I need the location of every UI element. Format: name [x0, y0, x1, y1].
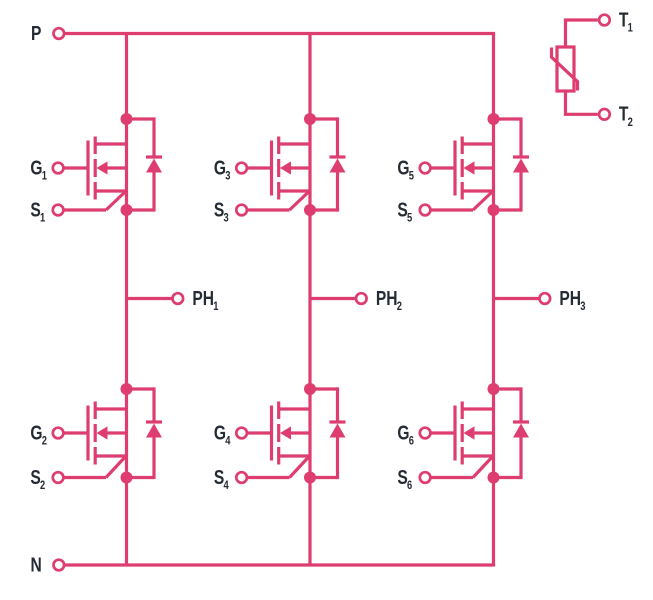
MOSFET Q4 body arrow	[280, 426, 310, 439]
MOSFET Q3 drain lead	[279, 142, 310, 145]
MOSFET Q3 source lead	[279, 189, 310, 192]
MOSFET Q1 source lead	[95, 189, 126, 192]
svg-text:S6: S6	[397, 466, 412, 492]
MOSFET Q5 source diagonal	[473, 191, 493, 210]
junction drain node Q3	[304, 113, 316, 125]
svg-text:PH3: PH3	[559, 287, 585, 313]
MOSFET Q5 source lead	[462, 189, 493, 192]
wire source S5	[430, 208, 473, 211]
MOSFET Q3 channel segments	[277, 137, 280, 200]
wire PH2 stub	[310, 297, 356, 300]
junction drain node Q4	[304, 383, 316, 395]
MOSFET Q1 channel segments	[94, 137, 97, 200]
junction drain node Q5	[488, 113, 500, 125]
terminal T2	[599, 109, 610, 120]
junction drain node Q1	[121, 113, 133, 125]
MOSFET Q6 source diagonal	[473, 456, 493, 478]
MOSFET Q2 channel segments	[94, 402, 97, 465]
wire diode D6 anode to source	[494, 438, 522, 480]
wire diode D3 anode to source	[310, 173, 338, 212]
wire diode D5 anode to source	[494, 173, 522, 212]
MOSFET Q2 source diagonal	[106, 456, 126, 478]
MOSFET Q5 channel segments	[461, 137, 464, 200]
MOSFET Q2 gate plate	[86, 406, 89, 461]
terminal G6	[420, 428, 431, 439]
wire gate G1	[63, 166, 88, 169]
terminal G5	[420, 163, 431, 174]
MOSFET Q1 gate plate	[86, 141, 89, 196]
MOSFET Q1 body arrow	[97, 161, 127, 174]
terminal N	[54, 560, 65, 571]
wire diode D1 anode to source	[127, 173, 155, 212]
svg-text:G5: G5	[397, 156, 414, 182]
terminal PH1	[173, 293, 184, 304]
terminal G4	[236, 428, 247, 439]
wire phase leg 3 (vertical)	[492, 34, 495, 566]
junction source node Q2	[121, 472, 133, 484]
wire source S3	[247, 208, 290, 211]
svg-text:S5: S5	[397, 198, 412, 224]
junction source node Q5	[488, 204, 500, 216]
MOSFET Q3 body arrow	[280, 161, 310, 174]
wire gate G5	[430, 166, 455, 169]
wire drain to diode D4 cathode	[310, 387, 338, 420]
terminal S5	[420, 205, 431, 216]
MOSFET Q5 drain lead	[462, 142, 493, 145]
wire source S4	[247, 476, 290, 479]
MOSFET Q6 channel segments	[461, 402, 464, 465]
terminal P	[54, 28, 65, 39]
MOSFET Q4 drain lead	[279, 407, 310, 410]
svg-text:S4: S4	[214, 466, 229, 492]
MOSFET Q3 gate plate	[270, 141, 273, 196]
MOSFET Q6 source lead	[462, 454, 493, 457]
terminal S2	[53, 472, 64, 483]
svg-text:N: N	[31, 553, 42, 575]
wire source S6	[430, 476, 473, 479]
wire gate G2	[63, 431, 88, 434]
wire gate G4	[247, 431, 272, 434]
svg-text:S3: S3	[214, 198, 229, 224]
wire source S2	[63, 476, 106, 479]
terminal G1	[53, 163, 64, 174]
MOSFET Q4 source diagonal	[290, 456, 310, 478]
MOSFET Q2 source lead	[95, 454, 126, 457]
thermistor RT1 strike line	[552, 48, 578, 91]
MOSFET Q6 gate plate	[453, 406, 456, 461]
body diode D6	[513, 422, 529, 438]
wire diode D4 anode to source	[310, 438, 338, 480]
MOSFET Q6 drain lead	[462, 407, 493, 410]
MOSFET Q2 drain lead	[95, 407, 126, 410]
svg-text:G1: G1	[30, 156, 47, 182]
wire drain to diode D1 cathode	[127, 117, 155, 155]
terminal G3	[236, 163, 247, 174]
terminal T1	[599, 15, 610, 26]
body diode D3	[330, 157, 346, 173]
body diode D2	[146, 422, 162, 438]
wire gate G6	[430, 431, 455, 434]
MOSFET Q4 source lead	[279, 454, 310, 457]
wire PH3 stub	[494, 297, 540, 300]
wire PH1 stub	[127, 297, 173, 300]
junction source node Q4	[304, 472, 316, 484]
thermistor RT1 body	[557, 47, 574, 91]
junction source node Q6	[488, 472, 500, 484]
svg-text:T2: T2	[619, 103, 633, 129]
terminal PH3	[540, 293, 551, 304]
body diode D1	[146, 157, 162, 173]
svg-text:PH2: PH2	[376, 287, 402, 313]
MOSFET Q1 source diagonal	[106, 191, 126, 210]
svg-text:PH1: PH1	[192, 287, 218, 313]
svg-text:S1: S1	[30, 198, 45, 224]
terminal S3	[236, 205, 247, 216]
wire source S1	[63, 208, 106, 211]
wire drain to diode D3 cathode	[310, 117, 338, 155]
wire gate G3	[247, 166, 272, 169]
MOSFET Q4 channel segments	[277, 402, 280, 465]
body diode D5	[513, 157, 529, 173]
wire drain to diode D6 cathode	[494, 387, 522, 420]
junction drain node Q6	[488, 383, 500, 395]
svg-text:S2: S2	[30, 466, 45, 492]
body diode D4	[330, 422, 346, 438]
MOSFET Q6 body arrow	[464, 426, 494, 439]
svg-text:G6: G6	[397, 421, 414, 447]
wire N rail	[64, 563, 495, 566]
MOSFET Q1 drain lead	[95, 142, 126, 145]
terminal G2	[53, 428, 64, 439]
wire P rail	[64, 32, 495, 35]
MOSFET Q4 gate plate	[270, 406, 273, 461]
wire T2 lead	[564, 91, 598, 114]
wire diode D2 anode to source	[127, 438, 155, 480]
svg-text:G2: G2	[30, 421, 47, 447]
svg-text:T1: T1	[619, 8, 633, 34]
MOSFET Q5 body arrow	[464, 161, 494, 174]
junction source node Q3	[304, 204, 316, 216]
MOSFET Q5 gate plate	[453, 141, 456, 196]
wire phase leg 2 (vertical)	[308, 34, 311, 566]
terminal S4	[236, 472, 247, 483]
terminal S1	[53, 205, 64, 216]
svg-text:G4: G4	[214, 421, 231, 447]
junction drain node Q2	[121, 383, 133, 395]
terminal S6	[420, 472, 431, 483]
terminal PH2	[356, 293, 367, 304]
wire phase leg 1 (vertical)	[125, 34, 128, 566]
wire T1 lead	[564, 20, 598, 47]
svg-text:G3: G3	[214, 156, 231, 182]
wire drain to diode D2 cathode	[127, 387, 155, 420]
svg-text:P: P	[31, 22, 41, 44]
MOSFET Q3 source diagonal	[290, 191, 310, 210]
junction source node Q1	[121, 204, 133, 216]
wire drain to diode D5 cathode	[494, 117, 522, 155]
MOSFET Q2 body arrow	[97, 426, 127, 439]
